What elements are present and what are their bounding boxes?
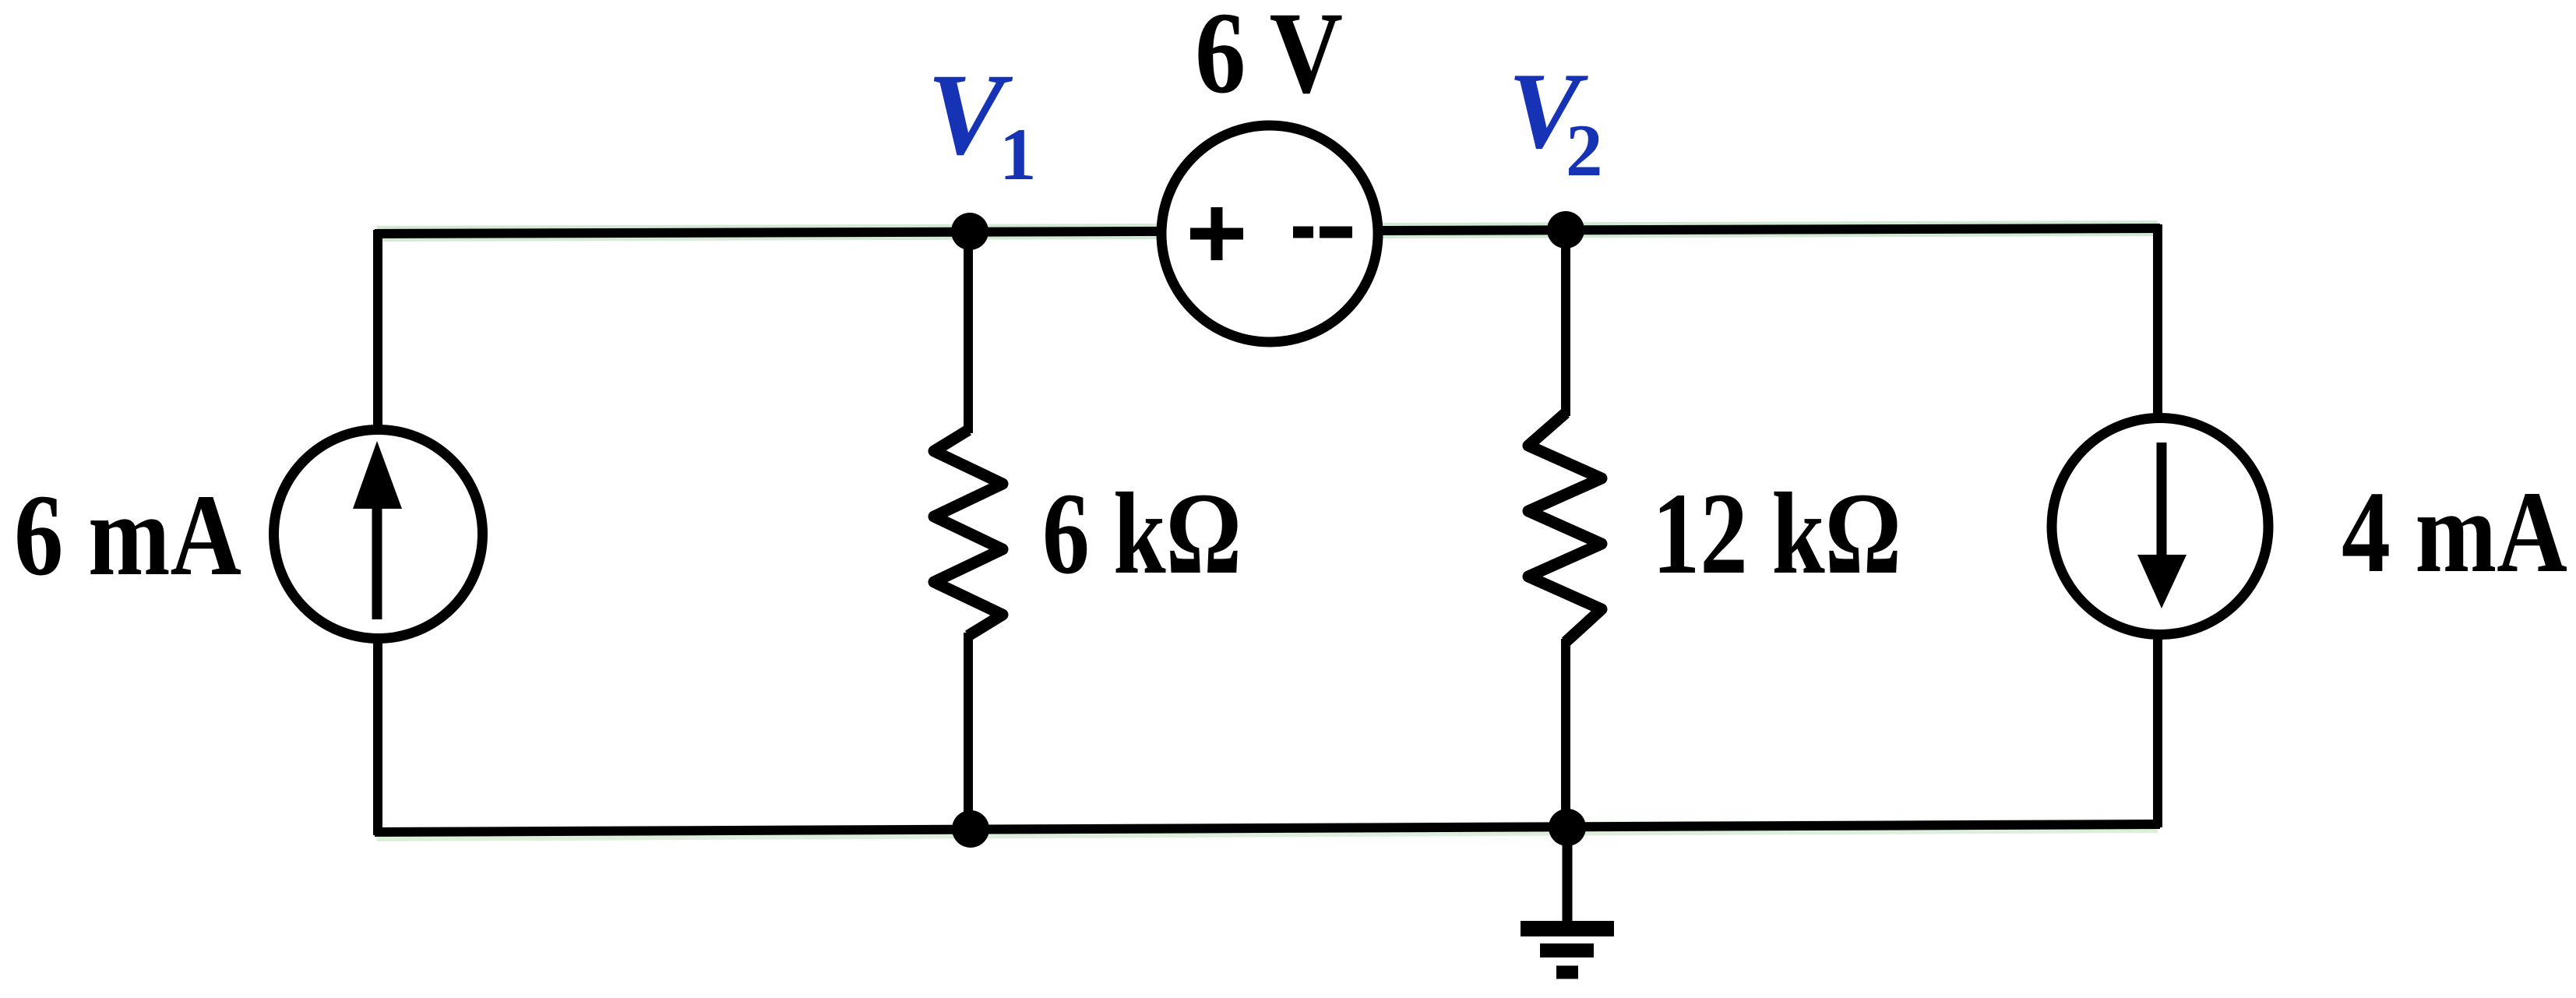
current source I2 arrow	[2137, 443, 2187, 608]
voltage source plus sign	[1190, 207, 1243, 260]
node label V1	[927, 50, 1037, 196]
current source I1 6 mA circle	[274, 430, 483, 639]
current source I1 arrow	[353, 441, 402, 619]
node V1 dot	[951, 213, 988, 250]
wire bottom halo	[377, 826, 2158, 834]
resistor R1 6 kOhm zigzag	[934, 430, 1003, 636]
svg-text:4 mA: 4 mA	[2342, 467, 2567, 597]
wire top halo	[377, 228, 2158, 234]
svg-text:12 kΩ: 12 kΩ	[1652, 469, 1901, 598]
wire left vertical	[373, 230, 382, 835]
svg-text:2: 2	[1566, 109, 1603, 192]
resistor R2 12 kOhm zigzag	[1528, 413, 1602, 642]
svg-text:6 V: 6 V	[1195, 0, 1343, 118]
wire 6k branch bottom	[964, 633, 973, 834]
node bottom left junction dot	[952, 810, 989, 848]
current source I2 4 mA circle	[2052, 418, 2268, 635]
svg-text:1: 1	[999, 113, 1037, 196]
wire 12k branch top	[1561, 227, 1570, 416]
ground	[1521, 827, 1614, 972]
voltage source minus sign	[1293, 227, 1352, 238]
wire 12k branch bottom	[1561, 639, 1570, 829]
svg-text:6 mA: 6 mA	[14, 471, 241, 600]
node V2 dot	[1547, 211, 1584, 249]
wire bottom	[375, 824, 2160, 832]
voltage source V 6V circle	[1161, 125, 1378, 342]
wire 6k branch top	[964, 230, 973, 433]
node label V2	[1508, 51, 1603, 192]
wire right vertical	[2153, 224, 2162, 827]
node ground junction dot	[1549, 809, 1586, 846]
wire top	[375, 228, 2160, 234]
svg-text:6 kΩ: 6 kΩ	[1042, 469, 1242, 598]
